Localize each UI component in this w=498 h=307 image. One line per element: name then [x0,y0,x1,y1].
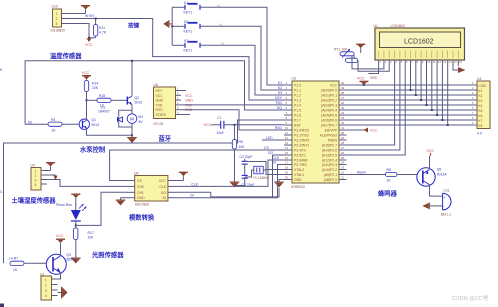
svg-text:1: 1 [35,170,37,174]
connector U10 DS18B20 [51,5,67,33]
svg-text:36: 36 [341,101,345,105]
svg-text:VCC: VCC [330,83,338,87]
svg-text:16: 16 [285,156,289,160]
wire ground rail bottom [211,188,279,197]
wire ADC CS to MCU P3.4 [110,150,284,181]
svg-text:R17: R17 [88,231,94,235]
svg-text:(A11)P2.3: (A11)P2.3 [322,163,337,167]
net labels left of MCU [275,81,283,130]
svg-text:(AD6)P0.6: (AD6)P0.6 [321,118,337,122]
buzzer LS1 BELL [441,189,451,217]
svg-text:Q2: Q2 [135,96,140,100]
wire LED to junction [75,221,77,228]
svg-text:DO: DO [161,191,166,195]
pushbutton K2 [184,20,201,34]
svg-text:U4: U4 [477,77,481,81]
svg-text:U6: U6 [154,83,158,87]
wire K3 row [172,44,185,46]
wire v link P3.5 [273,154,285,156]
LED photodiode D2 [71,204,87,221]
svg-text:10K: 10K [92,86,99,90]
svg-text:(AD3)P0.3: (AD3)P0.3 [321,103,337,107]
svg-text:P3.2/INT0: P3.2/INT0 [294,138,309,142]
svg-text:20: 20 [285,176,289,180]
resistor R17 [74,228,95,258]
svg-text:2: 2 [45,284,47,288]
power VCC ADC [177,172,188,181]
node D4 [431,109,433,111]
resistor R14 [84,81,98,101]
svg-text:CLK: CLK [191,182,198,186]
svg-text:22: 22 [341,171,345,175]
MCU left pin names [294,83,310,181]
wire LCD D1 [415,66,417,95]
node D1 [415,94,417,96]
wire Q2 collector up to temp net [131,61,133,96]
svg-text:5V: 5V [139,120,144,124]
svg-text:37: 37 [341,96,345,100]
transistor Q5 [417,168,448,187]
svg-text:R15: R15 [99,94,105,98]
capacitor C1 [211,116,224,135]
svg-text:17: 17 [285,161,289,165]
svg-text:K1: K1 [479,89,483,93]
svg-text:DQ: DQ [277,106,282,110]
node D2 [420,99,422,101]
svg-text:LCD1602: LCD1602 [404,39,434,46]
svg-text:STATE: STATE [156,113,167,117]
svg-text:KEY1: KEY1 [184,49,193,53]
svg-text:15: 15 [285,151,289,155]
wire LCD RW to P2.6 [347,66,400,150]
transistor Q1 [79,118,99,129]
svg-text:VCC: VCC [56,234,64,238]
svg-text:23: 23 [341,166,345,170]
svg-text:VCC: VCC [156,94,164,98]
svg-text:(AD7)P0.7: (AD7)P0.7 [321,123,337,127]
ground C2 C3 [235,185,245,187]
temp circuit power VCC [82,71,92,80]
svg-text:KEY1: KEY1 [184,30,193,34]
wire Q5 emitter to buzzer [430,185,443,196]
svg-text:TXD: TXD [275,101,282,105]
svg-text:1: 1 [45,278,47,282]
MCU left pin numbers [285,81,289,180]
svg-text:P3.5/T1: P3.5/T1 [294,153,306,157]
svg-text:9013A: 9013A [437,173,448,177]
wire K1 row [172,6,185,8]
wire DS18B20 data pin2 to MCU P1.3 [67,19,285,101]
node keys bus [171,25,173,27]
node R14/R15/Q1 [86,99,88,101]
svg-text:(A10)P2.2: (A10)P2.2 [322,168,337,172]
wire bluetooth RXD to MCU RXD [181,110,284,130]
svg-text:M1: M1 [139,115,144,119]
LCD1602 U1 [374,24,465,60]
pushbutton K1 [184,1,201,15]
svg-text:VCC: VCC [82,71,90,75]
svg-text:(A13)P2.5: (A13)P2.5 [322,153,337,157]
wire LCD D5 [436,66,438,115]
wire LCD RS to P2.7 [347,66,395,145]
svg-text:VCC: VCC [370,129,378,133]
resistor R5 reset [232,125,245,182]
svg-text:LED: LED [266,136,273,140]
svg-text:R6: R6 [387,168,391,172]
power VCC LCD [356,44,365,53]
wire LCD D2 [420,66,422,100]
svg-text:30: 30 [341,131,345,135]
capacitor C2 22pF [240,155,253,171]
svg-text:(A9)P2.1: (A9)P2.1 [324,173,337,177]
wire LCD D4 [431,66,433,110]
svg-text:DI: DI [163,196,166,200]
wire Q1 emitter to gnd rail [87,128,133,135]
svg-text:AT89C52: AT89C52 [291,185,305,189]
svg-text:R4: R4 [51,118,55,122]
svg-text:DO: DO [268,151,273,155]
svg-text:1K: 1K [387,179,392,183]
node junction R11 top [95,18,97,20]
svg-text:土壤湿度传感器: 土壤湿度传感器 [12,196,57,205]
svg-text:VCC: VCC [185,94,193,98]
svg-text:P3.0/RXD: P3.0/RXD [294,128,310,132]
svg-text:KEY1: KEY1 [184,11,193,15]
wire reset net to MCU RST [224,124,284,126]
soil sensor connector U9 [31,164,48,190]
svg-text:10: 10 [285,126,289,130]
svg-text:(A8)P2.0: (A8)P2.0 [324,178,337,182]
power VCC row40 [357,77,368,86]
svg-text:2: 2 [35,174,37,178]
wire LCD pin1 VSS [369,66,379,74]
transistor Q3 [46,253,74,274]
svg-text:RXD: RXD [275,126,283,130]
relay connector U4 [472,77,490,136]
svg-text:PSEN: PSEN [328,138,338,142]
svg-text:RXD: RXD [156,108,164,112]
svg-text:1: 1 [56,12,58,16]
wire ADC DO to gnd rail route [177,191,211,193]
svg-text:4 X: 4 X [477,132,483,136]
svg-text:GND: GND [156,99,164,103]
svg-text:P3.1/TXD: P3.1/TXD [294,133,309,137]
node photo junction [75,224,77,226]
svg-text:K8: K8 [479,124,483,128]
svg-text:(A12)P2.4: (A12)P2.4 [322,158,337,162]
wire EA to VCC [347,129,369,131]
svg-text:光照传感器: 光照传感器 [91,250,124,259]
svg-text:3: 3 [45,289,47,293]
wire P0.7 row [347,124,478,126]
power arrow backlight [458,67,466,73]
wire LCD D0 [410,66,412,90]
svg-text:a1: a1 [217,3,221,7]
svg-text:P1.6: P1.6 [294,113,301,117]
wire XTAL2 [245,162,284,170]
svg-text:ALE/PROG: ALE/PROG [320,133,338,137]
svg-text:GND: GND [294,178,302,182]
svg-text:P3.6/WR: P3.6/WR [294,158,308,162]
wire P0.2 row [347,99,478,101]
ADC0832 U8 [126,172,177,207]
wire keys left bus [171,7,173,45]
svg-text:模数转换: 模数转换 [129,213,155,222]
svg-text:DS18B20: DS18B20 [51,29,66,33]
svg-text:34: 34 [341,111,345,115]
MCU U3 AT89C52 [291,77,339,190]
node D7 [447,124,449,126]
svg-text:VCC: VCC [159,179,167,183]
svg-text:(AD2)P0.2: (AD2)P0.2 [321,98,337,102]
svg-text:P1.5: P1.5 [294,108,301,112]
svg-text:K5: K5 [479,109,483,113]
LCD pin stubs [379,60,459,66]
svg-text:K3: K3 [278,91,282,95]
svg-text:35: 35 [341,106,345,110]
svg-text:P3.4/T0: P3.4/T0 [294,148,306,152]
node Q2 collector on temp net [131,60,133,62]
svg-text:4: 4 [35,183,37,187]
svg-text:U10: U10 [52,5,58,9]
wire LCD pin3 to trimmer [358,60,389,71]
svg-text:11: 11 [285,131,288,135]
wire DS18B20 pin3 to gnd node [67,24,96,38]
key ground symbol [163,20,172,27]
svg-text:(A14)P2.6: (A14)P2.6 [322,148,337,152]
wire P0.6 row [347,119,478,121]
svg-text:CH0: CH0 [137,185,144,189]
wire P0.3 row [347,104,478,106]
svg-text:P3.3/INT1: P3.3/INT1 [294,143,309,147]
node D3 [426,104,428,106]
svg-text:32: 32 [341,121,345,125]
svg-text:(A15)P2.7: (A15)P2.7 [322,143,337,147]
svg-text:R11: R11 [99,26,105,30]
wire K2 row [172,25,185,27]
wire bluetooth TXD to MCU P1.4 [181,104,284,106]
wire P0.5 row [347,114,478,116]
svg-text:TXD: TXD [156,103,163,107]
svg-text:LS1: LS1 [444,189,450,193]
svg-text:18: 18 [285,166,289,170]
svg-text:9013: 9013 [92,123,100,127]
svg-text:Photo Res: Photo Res [56,203,72,207]
svg-text:33: 33 [341,116,345,120]
wire motor loop [119,110,132,127]
svg-text:CSDN @CC哩: CSDN @CC哩 [452,295,489,302]
svg-text:(AD4)P0.4: (AD4)P0.4 [321,108,337,112]
svg-text:VCC: VCC [85,43,93,47]
svg-text:M: M [130,117,134,122]
svg-text:C2 22pF: C2 22pF [240,155,253,159]
svg-text:R14: R14 [92,82,98,86]
svg-text:XTAL2: XTAL2 [294,168,304,172]
svg-text:21: 21 [341,176,345,180]
wire alarm row [347,174,386,176]
svg-text:CS: CS [137,179,142,183]
svg-text:10K: 10K [88,235,95,239]
wire motor bottom to ground rail [131,127,133,135]
LCD pin numbers [379,60,462,64]
wire ADC CLK to MCU [177,160,284,186]
svg-text:P1.1: P1.1 [294,88,301,92]
trimmer RT1 [334,48,358,63]
wire P0.0 row [347,89,478,91]
svg-text:VCC: VCC [427,149,435,153]
svg-text:GND: GND [185,99,193,103]
wire LCD E to P2.5 [347,66,406,155]
svg-text:19: 19 [285,171,289,175]
bluetooth module U6 [154,83,191,126]
svg-text:蜂鸣器: 蜂鸣器 [378,189,398,198]
power VCC symbol top-left [81,5,90,14]
wire soil AO to ADC CH0 [47,180,126,187]
svg-text:1K: 1K [13,268,18,272]
svg-text:KEY: KEY [156,89,164,93]
node D6 [441,119,443,121]
wire XTAL1 [263,170,284,175]
wire LCD D3 [426,66,428,105]
ADC ground arrow [116,198,126,206]
resistor R7 pump [9,257,46,273]
svg-text:Alarm: Alarm [357,171,366,175]
svg-text:Q3: Q3 [67,253,72,257]
wire LCD D6 [441,66,443,120]
wire LCD backlight A [453,66,458,70]
LCD pin name ticks [379,51,459,59]
svg-text:L4 R7: L4 R7 [9,257,18,261]
svg-text:RT1 10K: RT1 10K [334,48,348,52]
svg-text:W EN: W EN [85,14,94,18]
wire pump net frame to MCU P1.7 [4,120,285,263]
svg-text:3: 3 [56,22,58,26]
wire P0.4 row [347,109,478,111]
svg-text:29: 29 [341,136,345,140]
svg-text:(AD5)P0.5: (AD5)P0.5 [321,113,337,117]
resistor R15 [87,94,127,108]
svg-text:Q1: Q1 [92,118,97,122]
svg-text:K1: K1 [278,81,282,85]
svg-text:VCC: VCC [204,123,212,127]
capacitor C3 22pF [242,171,255,187]
svg-text:ADC0832: ADC0832 [135,203,150,207]
svg-text:GND: GND [137,196,145,200]
wire P0.1 row [347,94,478,96]
svg-text:蓝牙: 蓝牙 [159,134,172,143]
svg-text:VSS: VSS [370,76,378,80]
power VCC Q3 [56,234,65,256]
svg-text:4: 4 [45,294,47,298]
svg-text:P1.2: P1.2 [294,93,301,97]
ground sideways pump [58,287,68,299]
wire temperature net to MCU P1.5 [25,61,284,124]
pushbutton K3 [184,39,201,53]
wire ADC DI to MCU [177,165,284,198]
ground arrow soil [47,175,58,181]
motor M1 [127,114,143,124]
power VCC buzzer [427,149,435,170]
svg-text:KEY: KEY [275,96,283,100]
svg-text:P1.4: P1.4 [294,103,301,107]
node D5 [436,114,438,116]
svg-text:K7: K7 [479,119,483,123]
svg-text:K6: K6 [479,114,483,118]
MCU right pin stubs [339,85,347,180]
ground crystal area [230,182,240,188]
svg-text:1N4007: 1N4007 [98,110,110,114]
diode D1 [98,105,123,122]
svg-text:P1.7: P1.7 [294,118,301,122]
power VCC EA arrow [364,128,378,133]
wire Q2 emitter to motor loop [131,105,133,111]
transistor Q2 [127,96,142,105]
svg-text:CLK: CLK [273,156,280,160]
svg-text:26: 26 [341,151,345,155]
svg-text:8550: 8550 [67,257,75,261]
ground MCU [274,182,284,188]
svg-text:K2: K2 [278,86,282,90]
resistor R11 [93,19,106,38]
svg-text:EA/VPP: EA/VPP [325,128,338,132]
svg-text:3: 3 [35,179,37,183]
svg-text:水泵控制: 水泵控制 [80,145,105,154]
ground photo [71,258,81,264]
wire DS18B20 pin1 to VCC [67,13,86,15]
power symbol below R11 [85,38,93,47]
svg-text:DI: DI [190,194,193,198]
svg-text:CS: CS [264,146,269,150]
ground arrow buzzer [422,203,442,210]
svg-text:C1: C1 [217,116,221,120]
svg-text:a3: a3 [221,41,225,45]
svg-text:K4: K4 [479,104,483,108]
svg-text:VCC: VCC [357,77,365,81]
svg-text:RST: RST [294,123,301,127]
svg-text:K2: K2 [479,94,483,98]
svg-text:24: 24 [341,161,345,165]
svg-text:38: 38 [341,91,345,95]
svg-text:(AD1)P0.1: (AD1)P0.1 [321,93,337,97]
resistor R4 [25,118,79,133]
svg-text:P3.7/RD: P3.7/RD [294,163,307,167]
node D0 [410,89,412,91]
crystal Y1 [253,166,269,180]
svg-text:10K: 10K [239,145,246,149]
svg-text:XTAL1: XTAL1 [294,173,304,177]
svg-text:31: 31 [341,126,345,130]
svg-text:K3: K3 [479,99,483,103]
svg-text:CH1: CH1 [137,191,144,195]
wire Q3 emitter to connector [52,273,61,279]
svg-text:12: 12 [285,136,289,140]
svg-text:P1.3: P1.3 [294,98,301,102]
svg-text:9013: 9013 [135,101,143,105]
svg-text:按键: 按键 [128,21,140,29]
svg-text:HC-05: HC-05 [154,122,164,126]
svg-text:14: 14 [285,146,289,150]
svg-text:2: 2 [56,17,58,21]
MCU right pin numbers [341,81,345,180]
node junction pin3/R11 [88,37,90,39]
wire Q1 collector [86,100,88,120]
svg-text:4.7K: 4.7K [99,30,107,34]
ground symbol temp circuit [127,135,137,143]
svg-text:R5: R5 [239,140,243,144]
wire photo to ADC CH1 [76,192,126,225]
node reset junction [234,124,236,126]
pump connector U2 [40,273,58,300]
